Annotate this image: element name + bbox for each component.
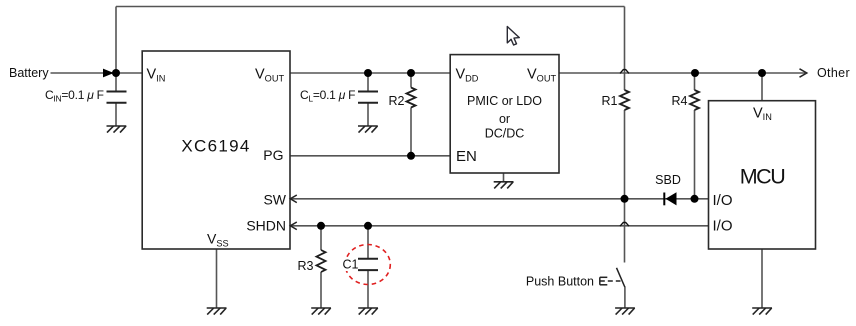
svg-text:CL=0.1 μ F: CL=0.1 μ F (300, 88, 355, 104)
svg-text:EN: EN (456, 148, 477, 165)
svg-text:I/O: I/O (713, 192, 733, 209)
svg-text:R3: R3 (298, 259, 314, 273)
svg-text:or: or (499, 112, 510, 126)
svg-text:PG: PG (263, 147, 283, 163)
svg-text:C1: C1 (343, 258, 359, 272)
svg-text:Push Button: Push Button (526, 275, 594, 289)
svg-text:R1: R1 (602, 94, 618, 108)
svg-text:XC6194: XC6194 (181, 137, 250, 156)
svg-text:PMIC or LDO: PMIC or LDO (467, 94, 542, 108)
svg-text:SHDN: SHDN (246, 218, 286, 234)
svg-text:DC/DC: DC/DC (485, 127, 525, 141)
svg-text:Battery: Battery (9, 66, 49, 80)
svg-text:I/O: I/O (713, 218, 733, 235)
svg-text:R4: R4 (672, 94, 688, 108)
svg-text:R2: R2 (389, 94, 405, 108)
svg-text:SW: SW (263, 192, 286, 208)
svg-text:MCU: MCU (740, 165, 784, 189)
svg-text:SBD: SBD (655, 173, 681, 187)
svg-text:Other: Other (817, 66, 850, 80)
